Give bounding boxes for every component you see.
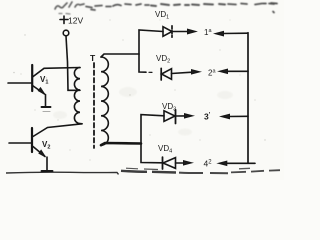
svg-text:12V: 12V	[68, 16, 83, 26]
svg-text:T: T	[90, 53, 96, 63]
